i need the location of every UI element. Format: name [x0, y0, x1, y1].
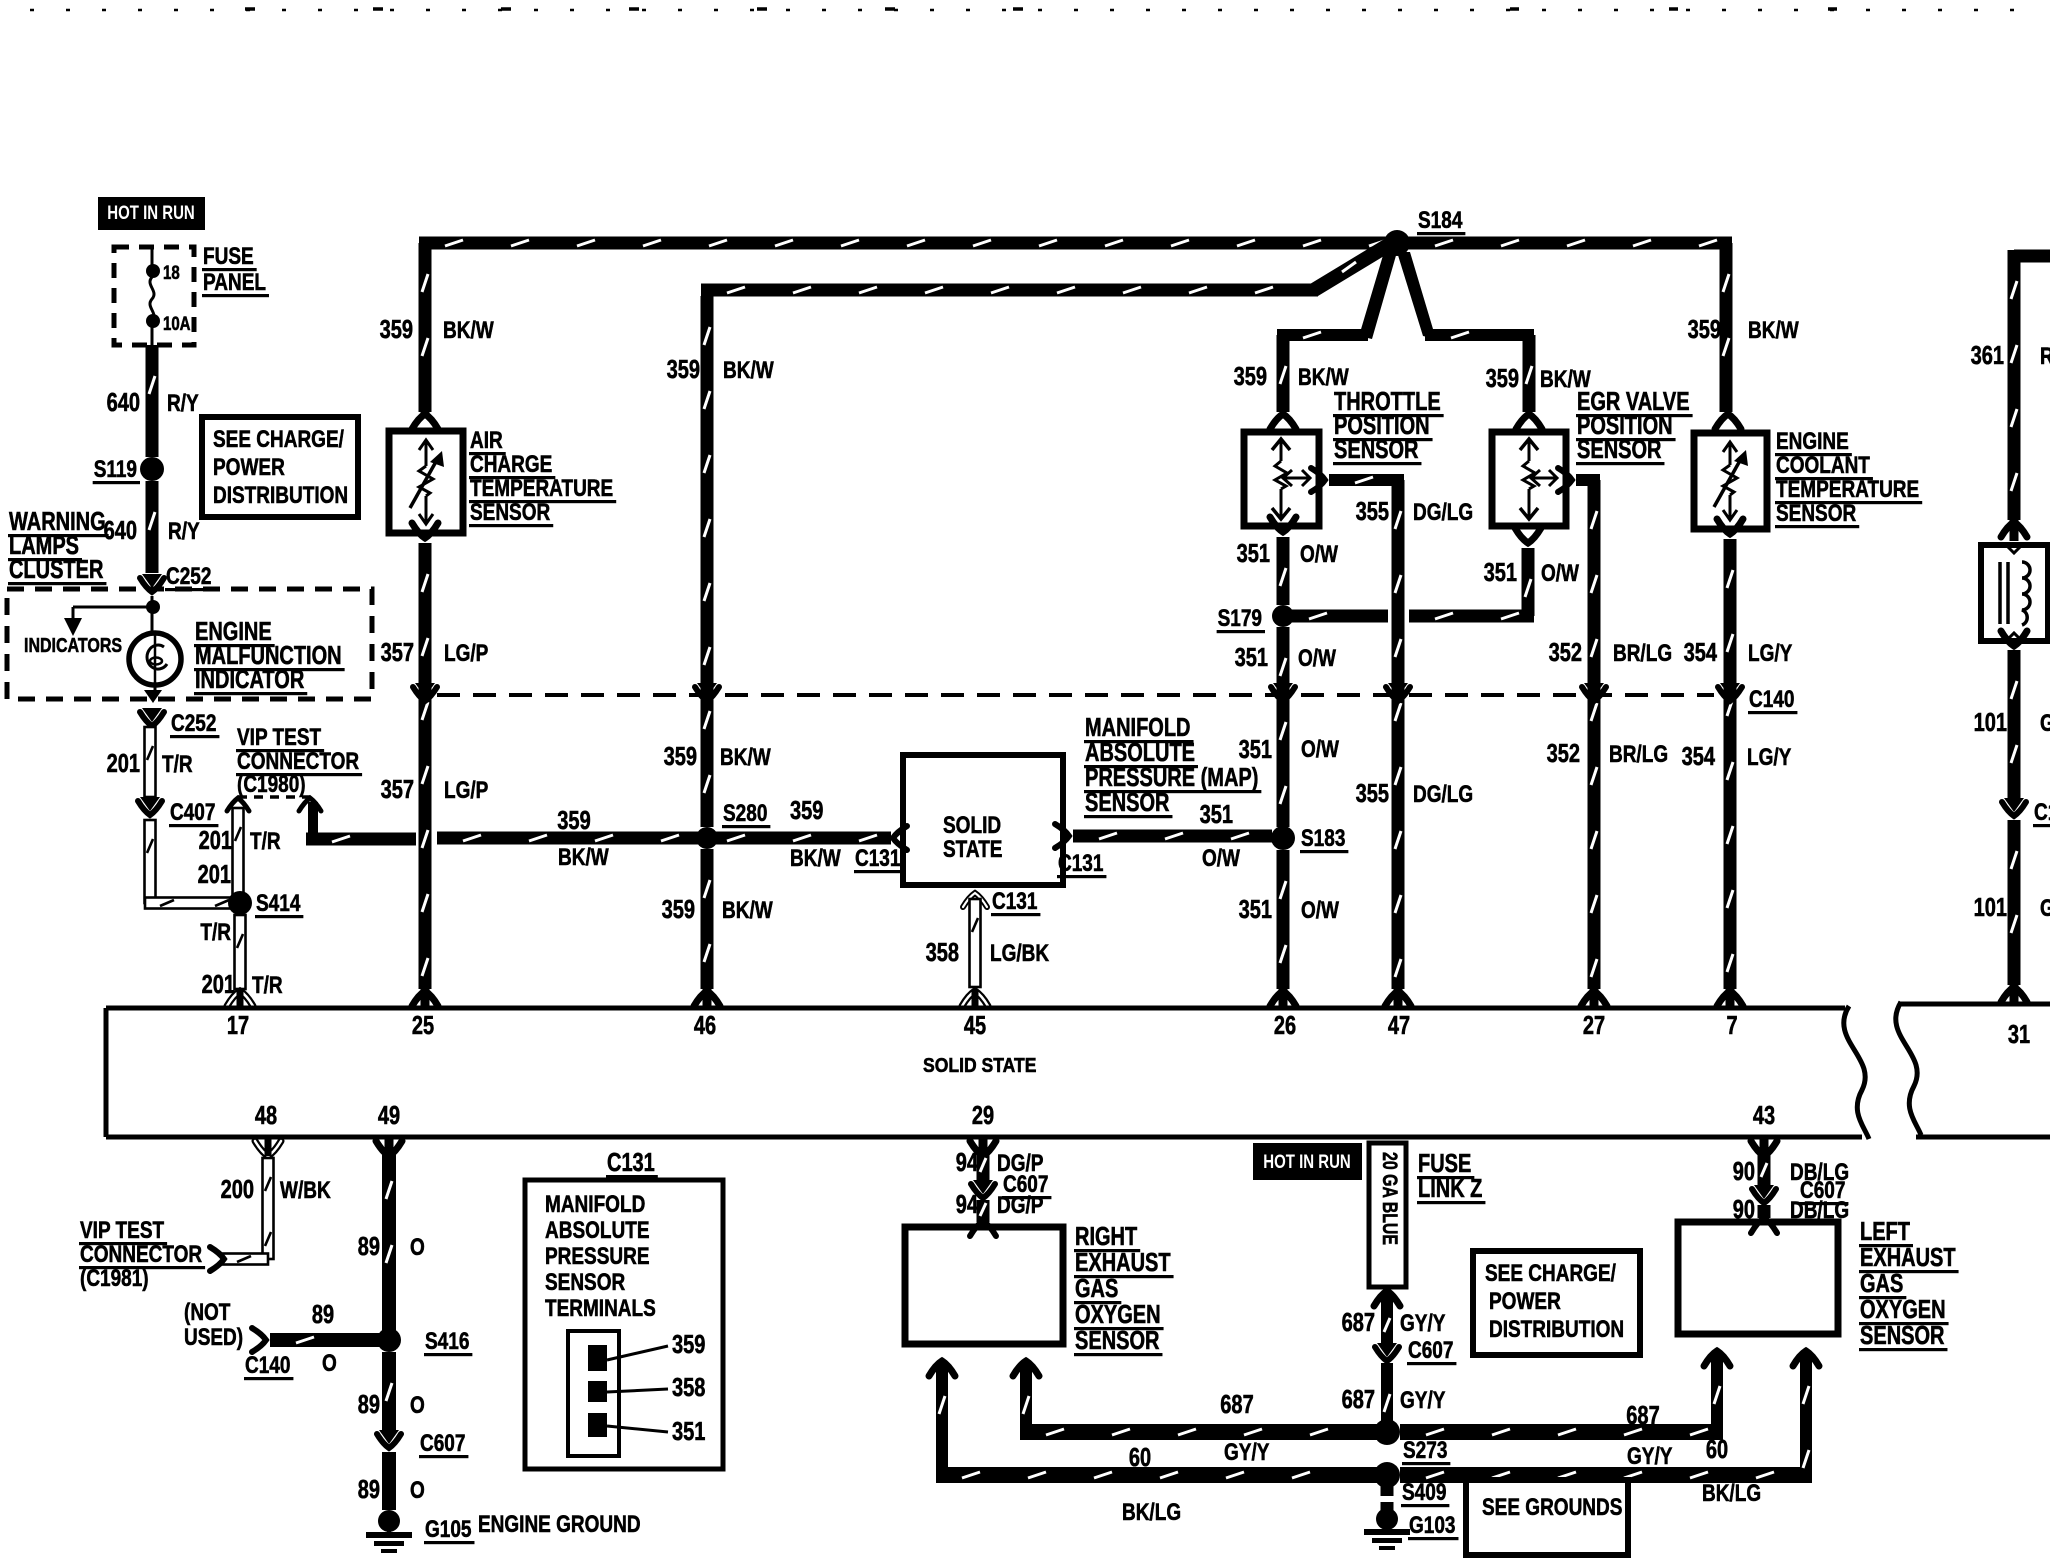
- wire 60 BK/LG right EGO left leg to S409: [929, 1361, 1381, 1526]
- svg-text:359: 359: [790, 797, 823, 825]
- svg-text:25: 25: [412, 1012, 434, 1040]
- svg-text:DISTRIBUTION: DISTRIBUTION: [213, 482, 348, 509]
- svg-text:O/W: O/W: [1301, 736, 1339, 763]
- splice S179: [1217, 605, 1294, 633]
- svg-text:SENSOR: SENSOR: [1860, 1322, 1945, 1350]
- svg-text:358: 358: [672, 1374, 705, 1402]
- svg-text:W/BK: W/BK: [280, 1177, 331, 1204]
- wire 101 G coil to C1xx connector: [1974, 631, 2050, 800]
- svg-text:359: 359: [672, 1331, 705, 1359]
- connector C252 (bottom): [140, 684, 219, 738]
- svg-text:361: 361: [1971, 342, 2004, 370]
- svg-text:(NOT: (NOT: [184, 1299, 231, 1326]
- fuse panel dashed box: [114, 247, 194, 345]
- svg-text:POWER: POWER: [1489, 1288, 1561, 1315]
- svg-text:31: 31: [2008, 1021, 2030, 1049]
- svg-text:AIR: AIR: [470, 427, 503, 454]
- svg-text:MANIFOLD: MANIFOLD: [545, 1191, 645, 1218]
- svg-text:POWER: POWER: [213, 454, 285, 481]
- torn-edge perforation dots (top border): [30, 9, 2045, 10]
- svg-text:359: 359: [557, 807, 590, 835]
- svg-text:CONNECTOR: CONNECTOR: [80, 1241, 202, 1268]
- wire 200 W/BK pin 48 to VIP test connector C1981: [210, 1139, 331, 1271]
- svg-text:355: 355: [1356, 498, 1389, 526]
- svg-text:GY/Y: GY/Y: [1400, 1387, 1445, 1414]
- svg-text:SENSOR: SENSOR: [470, 499, 551, 526]
- svg-text:LINK Z: LINK Z: [1418, 1175, 1482, 1203]
- wire 359 BK/W S280 to EEC pin 46: [662, 849, 773, 1006]
- svg-text:359: 359: [662, 896, 695, 924]
- ignition coil / solenoid box (right edge): [1981, 545, 2048, 641]
- splice S416: [377, 1328, 472, 1356]
- splice S273: [1374, 1419, 1450, 1465]
- wire 90 DB/LG pin 43 to C607: [1733, 1139, 1849, 1186]
- svg-text:352: 352: [1549, 639, 1582, 667]
- svg-text:HOT IN RUN: HOT IN RUN: [107, 203, 195, 224]
- svg-text:VIP TEST: VIP TEST: [80, 1217, 164, 1244]
- svg-text:201: 201: [107, 750, 140, 778]
- wire 352 BR/LG EGR wiper to EEC pin 27: [1547, 468, 1673, 1006]
- svg-text:C131: C131: [992, 888, 1037, 915]
- svg-text:352: 352: [1547, 740, 1580, 768]
- label HOT IN RUN (fuse panel): [98, 197, 205, 230]
- wire black elbow C1980 to 359 bus: [306, 802, 416, 846]
- svg-text:BR/LG: BR/LG: [1613, 640, 1672, 667]
- connector C607 (fuse link): [1375, 1337, 1456, 1365]
- svg-text:PANEL: PANEL: [203, 269, 266, 296]
- svg-text:S409: S409: [1402, 1479, 1446, 1506]
- svg-text:S119: S119: [94, 456, 137, 483]
- engine malfunction indicator bulb: [129, 633, 181, 685]
- wire 89 O C607 to G105: [358, 1452, 425, 1510]
- svg-text:PRESSURE: PRESSURE: [545, 1243, 650, 1270]
- connector C607 (right EGO): [971, 1171, 1051, 1199]
- label (NOT USED) and C140 stub wire: [184, 1299, 385, 1380]
- svg-text:GY/Y: GY/Y: [1627, 1443, 1672, 1470]
- svg-text:GY/Y: GY/Y: [1400, 1310, 1445, 1337]
- svg-text:354: 354: [1682, 743, 1716, 771]
- svg-text:C1: C1: [2034, 799, 2050, 826]
- svg-text:TEMPERATURE: TEMPERATURE: [1776, 476, 1919, 503]
- svg-text:T/R: T/R: [252, 972, 283, 999]
- svg-text:INDICATOR: INDICATOR: [195, 666, 304, 694]
- svg-text:359: 359: [1234, 363, 1267, 391]
- svg-text:O/W: O/W: [1298, 645, 1336, 672]
- svg-text:USED): USED): [184, 1324, 243, 1351]
- label WARNING LAMPS CLUSTER: [8, 508, 109, 585]
- svg-text:SENSOR: SENSOR: [1075, 1327, 1160, 1355]
- wire 90 DB/LG C607 to left EGO sensor: [1733, 1196, 1849, 1233]
- svg-text:BK/LG: BK/LG: [1702, 1480, 1761, 1507]
- svg-text:EXHAUST: EXHAUST: [1860, 1244, 1956, 1272]
- wire 359 BK/W bus2 down through C140 to S280: [664, 296, 774, 827]
- warning lamps cluster dashed box: [7, 589, 372, 699]
- connector C1 (right edge): [2002, 798, 2050, 827]
- svg-text:BK/LG: BK/LG: [1122, 1499, 1181, 1526]
- svg-text:351: 351: [1239, 896, 1272, 924]
- throttle position sensor: [1244, 432, 1319, 526]
- svg-text:STATE: STATE: [943, 836, 1003, 863]
- wire 354 LG/Y coolant sensor to EEC pin 7: [1682, 519, 1793, 1006]
- svg-text:VIP TEST: VIP TEST: [237, 724, 321, 751]
- svg-text:101: 101: [1974, 709, 2007, 737]
- svg-text:INDICATORS: INDICATORS: [24, 634, 122, 657]
- svg-text:359: 359: [1486, 365, 1519, 393]
- wire 355 DG/LG TPS wiper to EEC pin 47: [1311, 468, 1473, 1006]
- svg-text:94: 94: [956, 1191, 979, 1219]
- svg-text:T/R: T/R: [250, 828, 281, 855]
- svg-text:C140: C140: [245, 1352, 290, 1379]
- splice S183: [1271, 825, 1348, 853]
- label VIP TEST CONNECTOR (C1980): [236, 724, 362, 798]
- svg-text:SEE CHARGE/: SEE CHARGE/: [1485, 1260, 1616, 1287]
- svg-text:T/R: T/R: [200, 919, 231, 946]
- wire 351 O/W S179 down through C140 to S183: [1235, 627, 1339, 827]
- ground G103: [1364, 1508, 1458, 1550]
- svg-text:SENSOR: SENSOR: [545, 1269, 626, 1296]
- svg-text:LG/Y: LG/Y: [1748, 640, 1792, 667]
- svg-text:CHARGE: CHARGE: [470, 451, 552, 478]
- wire 89 O S416 to C607: [358, 1352, 425, 1430]
- connector C1980 terminals with dashed link: [227, 797, 321, 811]
- svg-text:O: O: [410, 1234, 425, 1261]
- svg-text:C131: C131: [1058, 850, 1103, 877]
- wire 359 BK/W horizontal C1980 junction to solid state module: [437, 797, 907, 872]
- svg-text:SENSOR: SENSOR: [1334, 436, 1419, 464]
- svg-text:GAS: GAS: [1075, 1275, 1118, 1303]
- svg-text:COOLANT: COOLANT: [1776, 452, 1870, 479]
- svg-text:O/W: O/W: [1300, 541, 1338, 568]
- air charge temperature sensor: [389, 431, 463, 533]
- dashed wire S409 to G103: [1381, 1486, 1394, 1514]
- svg-text:EXHAUST: EXHAUST: [1075, 1249, 1171, 1277]
- wire 359 BK/W to air charge sensor: [380, 243, 494, 429]
- svg-text:200: 200: [221, 1176, 254, 1204]
- engine coolant temperature sensor: [1694, 433, 1767, 529]
- svg-text:C131: C131: [855, 845, 900, 872]
- svg-text:O/W: O/W: [1301, 897, 1339, 924]
- wire 359 BK/W second bus to S184: [701, 238, 1394, 297]
- wire 359 BK/W to EGR sensor: [1486, 335, 1591, 429]
- EEC pin numbers top row: [227, 1012, 2030, 1049]
- svg-text:S280: S280: [723, 800, 767, 827]
- label VIP TEST CONNECTOR (C1981): [79, 1217, 205, 1292]
- svg-text:18: 18: [163, 263, 180, 284]
- svg-text:O: O: [410, 1477, 425, 1504]
- svg-text:359: 359: [1688, 316, 1721, 344]
- svg-text:(C1981): (C1981): [80, 1265, 149, 1292]
- wire 351 O/W S183 to EEC pin 26: [1239, 850, 1339, 1006]
- svg-text:48: 48: [255, 1102, 277, 1130]
- svg-text:BK/W: BK/W: [1298, 364, 1349, 391]
- svg-text:60: 60: [1129, 1444, 1151, 1472]
- ground G105: [366, 1510, 474, 1553]
- label EGR VALVE POSITION SENSOR: [1576, 388, 1693, 465]
- svg-text:SOLID STATE: SOLID STATE: [923, 1054, 1036, 1077]
- svg-text:DISTRIBUTION: DISTRIBUTION: [1489, 1316, 1624, 1343]
- svg-text:LG/P: LG/P: [444, 777, 488, 804]
- wire 359 BK/W top bus from air charge sensor to S184 to coolant sensor: [419, 237, 1732, 250]
- svg-text:351: 351: [1235, 644, 1268, 672]
- label RIGHT EXHAUST GAS OXYGEN SENSOR: [1074, 1223, 1174, 1356]
- svg-text:27: 27: [1583, 1012, 1605, 1040]
- wire 351 O/W TPS to S179: [1237, 517, 1338, 605]
- svg-text:201: 201: [198, 861, 231, 889]
- svg-text:359: 359: [667, 356, 700, 384]
- svg-text:G: G: [2040, 710, 2050, 737]
- svg-text:7: 7: [1726, 1012, 1737, 1040]
- svg-text:ENGINE GROUND: ENGINE GROUND: [478, 1511, 641, 1538]
- svg-text:20 GA BLUE: 20 GA BLUE: [1378, 1152, 1401, 1245]
- svg-text:351: 351: [1237, 540, 1270, 568]
- box SEE CHARGE/POWER DISTRIBUTION (upper): [202, 417, 358, 517]
- label ENGINE COOLANT TEMPERATURE SENSOR: [1775, 428, 1922, 528]
- svg-text:TERMINALS: TERMINALS: [545, 1295, 656, 1322]
- left exhaust gas oxygen sensor box: [1678, 1222, 1838, 1334]
- svg-text:G: G: [2040, 895, 2050, 922]
- svg-text:BK/W: BK/W: [790, 845, 841, 872]
- box SEE CHARGE/POWER DISTRIBUTION (lower): [1473, 1251, 1640, 1355]
- svg-text:49: 49: [378, 1102, 400, 1130]
- wire left EGO right leg to 60 wire: [1793, 1351, 1819, 1483]
- svg-text:351: 351: [1239, 736, 1272, 764]
- connector C407: [138, 797, 218, 827]
- svg-text:(C1980): (C1980): [237, 771, 306, 798]
- connector C607 (left EGO): [1752, 1177, 1848, 1205]
- splice S409: [1374, 1462, 1449, 1507]
- svg-text:354: 354: [1684, 639, 1718, 667]
- svg-text:SEE GROUNDS: SEE GROUNDS: [1482, 1494, 1622, 1521]
- svg-text:357: 357: [381, 776, 414, 804]
- wire 687 GY/Y fuse link to C607: [1342, 1291, 1446, 1346]
- label FUSE PANEL: [202, 243, 269, 297]
- band break squiggle: [1844, 1002, 1921, 1139]
- svg-text:351: 351: [1200, 801, 1233, 829]
- svg-text:SENSOR: SENSOR: [1776, 500, 1857, 527]
- wire 89 O pin 49 to S416: [358, 1139, 425, 1335]
- svg-text:MANIFOLD: MANIFOLD: [1085, 714, 1191, 742]
- svg-text:S414: S414: [256, 890, 301, 917]
- wire 201 T/R C1980 to S414: [198, 808, 281, 897]
- wire 357 LG/P air charge sensor to EEC pin 25: [381, 523, 489, 1006]
- svg-text:BR/LG: BR/LG: [1609, 741, 1668, 768]
- svg-text:687: 687: [1626, 1402, 1659, 1430]
- svg-text:S416: S416: [425, 1328, 469, 1355]
- wire 687 GY/Y C607 to S273: [1342, 1363, 1446, 1430]
- svg-text:O: O: [322, 1350, 337, 1377]
- connector C140 dashed line: [437, 693, 1714, 697]
- svg-text:10A: 10A: [163, 314, 191, 335]
- svg-text:G103: G103: [1409, 1512, 1456, 1539]
- svg-text:201: 201: [199, 827, 232, 855]
- wire 101 G C1xx to EEC pin 31: [1974, 820, 2050, 1002]
- wire 640 R/Y fuse panel to S119: [107, 345, 199, 457]
- label MANIFOLD ABSOLUTE PRESSURE (MAP) SENSOR: [1084, 714, 1261, 818]
- svg-text:S273: S273: [1403, 1437, 1447, 1464]
- connector C607 (engine ground leg): [377, 1430, 468, 1458]
- splice S184: [1384, 207, 1465, 256]
- svg-text:DG/P: DG/P: [997, 1192, 1044, 1219]
- wire 361 R from top right: [1971, 250, 2050, 542]
- svg-text:R/Y: R/Y: [167, 390, 199, 417]
- label AIR CHARGE TEMPERATURE SENSOR: [469, 427, 616, 527]
- svg-text:ABSOLUTE: ABSOLUTE: [1085, 739, 1195, 767]
- svg-text:ENGINE: ENGINE: [1776, 428, 1849, 455]
- svg-text:687: 687: [1342, 1386, 1375, 1414]
- svg-text:O/W: O/W: [1541, 560, 1579, 587]
- svg-text:GY/Y: GY/Y: [1224, 1439, 1269, 1466]
- svg-text:60: 60: [1706, 1436, 1728, 1464]
- svg-text:R/Y: R/Y: [168, 518, 200, 545]
- wire 94 DG/P pin 29 to C607: [956, 1139, 1044, 1180]
- EEC pin numbers bottom row: [255, 1102, 1775, 1130]
- splice S414: [228, 890, 303, 918]
- wire left EGO left leg to 687 wire: [1704, 1351, 1730, 1440]
- svg-text:DG/LG: DG/LG: [1413, 781, 1473, 808]
- svg-text:C607: C607: [420, 1430, 465, 1457]
- svg-text:TEMPERATURE: TEMPERATURE: [470, 475, 613, 502]
- svg-text:GAS: GAS: [1860, 1270, 1903, 1298]
- svg-text:C607: C607: [1408, 1337, 1453, 1364]
- connector C140 crossing symbols: [413, 683, 1742, 701]
- svg-text:S184: S184: [1418, 207, 1463, 234]
- svg-text:357: 357: [381, 639, 414, 667]
- fuse link Z box 20 GA BLUE: [1369, 1143, 1406, 1287]
- svg-text:SENSOR: SENSOR: [1085, 789, 1170, 817]
- svg-text:SEE CHARGE/: SEE CHARGE/: [213, 426, 344, 453]
- wire 201 T/R S414 to EEC pin 17: [200, 915, 283, 1006]
- svg-text:640: 640: [107, 389, 140, 417]
- right exhaust gas oxygen sensor box: [905, 1227, 1063, 1344]
- svg-text:DG/LG: DG/LG: [1413, 499, 1473, 526]
- svg-text:640: 640: [104, 517, 137, 545]
- svg-text:C131: C131: [607, 1149, 655, 1177]
- svg-text:89: 89: [312, 1301, 334, 1329]
- label THROTTLE POSITION SENSOR: [1333, 388, 1444, 465]
- solid state module box: [903, 755, 1063, 885]
- svg-text:S183: S183: [1301, 825, 1345, 852]
- fuse F18 10A inside fuse panel: [146, 247, 191, 345]
- svg-text:BK/W: BK/W: [720, 744, 771, 771]
- svg-text:BK/W: BK/W: [1748, 317, 1799, 344]
- svg-text:T/R: T/R: [162, 751, 193, 778]
- svg-text:SOLID: SOLID: [943, 812, 1001, 839]
- svg-text:O/W: O/W: [1202, 845, 1240, 872]
- svg-text:90: 90: [1733, 1158, 1755, 1186]
- C131 MAP sensor terminals detail box: [525, 1149, 723, 1469]
- svg-text:BK/W: BK/W: [558, 844, 609, 871]
- wire 94 DG/P C607 to right EGO sensor: [956, 1191, 1044, 1236]
- svg-text:359: 359: [380, 316, 413, 344]
- svg-text:HOT IN RUN: HOT IN RUN: [1263, 1152, 1351, 1173]
- svg-text:351: 351: [1484, 559, 1517, 587]
- wire 358 LG/BK solid state to EEC pin 45: [926, 888, 1050, 1006]
- wire 687 GY/Y right EGO right leg to S273: [1013, 1361, 1379, 1466]
- wire 201 T/R C252 to C407: [107, 727, 193, 797]
- svg-text:BK/W: BK/W: [443, 317, 494, 344]
- label ENGINE MALFUNCTION INDICATOR: [194, 618, 345, 695]
- svg-text:FUSE: FUSE: [1418, 1150, 1471, 1178]
- svg-text:FUSE: FUSE: [203, 243, 254, 270]
- svg-text:45: 45: [964, 1012, 986, 1040]
- svg-text:C407: C407: [170, 799, 215, 826]
- svg-text:LEFT: LEFT: [1860, 1218, 1910, 1246]
- svg-text:OXYGEN: OXYGEN: [1860, 1296, 1946, 1324]
- svg-text:201: 201: [202, 971, 235, 999]
- svg-text:89: 89: [358, 1233, 380, 1261]
- svg-text:89: 89: [358, 1391, 380, 1419]
- box SEE GROUNDS: [1466, 1480, 1628, 1555]
- svg-text:26: 26: [1274, 1012, 1296, 1040]
- splice S119: [93, 456, 164, 484]
- svg-text:G105: G105: [425, 1516, 472, 1543]
- svg-text:94: 94: [956, 1149, 979, 1177]
- svg-text:C252: C252: [166, 563, 211, 590]
- svg-text:43: 43: [1753, 1102, 1775, 1130]
- svg-text:687: 687: [1342, 1309, 1375, 1337]
- svg-text:359: 359: [664, 743, 697, 771]
- svg-text:SENSOR: SENSOR: [1577, 436, 1662, 464]
- svg-text:C252: C252: [171, 710, 216, 737]
- svg-text:46: 46: [694, 1012, 716, 1040]
- splice S280: [696, 800, 770, 849]
- EGR valve position sensor: [1492, 432, 1566, 526]
- svg-text:89: 89: [358, 1476, 380, 1504]
- svg-text:358: 358: [926, 939, 959, 967]
- wire 640 R/Y S119 to C252: [104, 481, 200, 573]
- svg-text:OXYGEN: OXYGEN: [1075, 1301, 1161, 1329]
- svg-text:R: R: [2040, 343, 2050, 370]
- svg-text:BK/W: BK/W: [722, 897, 773, 924]
- svg-text:S179: S179: [1218, 605, 1262, 632]
- svg-text:687: 687: [1220, 1391, 1253, 1419]
- wire 351 O/W solid state to S183: [1055, 801, 1272, 872]
- svg-text:LG/Y: LG/Y: [1747, 744, 1791, 771]
- svg-text:17: 17: [227, 1012, 249, 1040]
- svg-text:29: 29: [972, 1102, 994, 1130]
- svg-text:101: 101: [1974, 894, 2007, 922]
- wire 60 BK/LG S409 to left EGO: [1400, 1436, 1812, 1507]
- node and branch arrow to other indicators: [64, 596, 160, 636]
- label FUSE LINK Z: [1417, 1150, 1485, 1204]
- svg-text:RIGHT: RIGHT: [1075, 1223, 1137, 1251]
- wire 359 BK/W to coolant sensor: [1688, 243, 1799, 429]
- svg-text:LG/BK: LG/BK: [990, 940, 1049, 967]
- svg-text:O: O: [410, 1392, 425, 1419]
- svg-text:CLUSTER: CLUSTER: [9, 556, 103, 584]
- wire V legs from S184 to TPS and EGR: [1277, 252, 1534, 341]
- svg-text:C140: C140: [1749, 686, 1794, 713]
- wire 351 O/W S179 to EGR return: [1283, 528, 1579, 623]
- svg-text:BK/W: BK/W: [723, 357, 774, 384]
- svg-text:ABSOLUTE: ABSOLUTE: [545, 1217, 650, 1244]
- wire 359 BK/W to TPS: [1234, 335, 1349, 429]
- label LEFT EXHAUST GAS OXYGEN SENSOR: [1859, 1218, 1959, 1351]
- connector C252 (top): [140, 563, 214, 592]
- wire 687 GY/Y S273 to left EGO: [1400, 1402, 1723, 1470]
- svg-text:351: 351: [672, 1418, 705, 1446]
- EEC solid state module band outline: [106, 1004, 2050, 1137]
- svg-text:LG/P: LG/P: [444, 640, 488, 667]
- label HOT IN RUN (fuse link): [1253, 1143, 1362, 1180]
- svg-text:355: 355: [1356, 780, 1389, 808]
- wire 201 T/R C407 down and right to S414: [145, 820, 236, 909]
- svg-text:47: 47: [1388, 1012, 1410, 1040]
- svg-text:PRESSURE (MAP): PRESSURE (MAP): [1085, 764, 1258, 792]
